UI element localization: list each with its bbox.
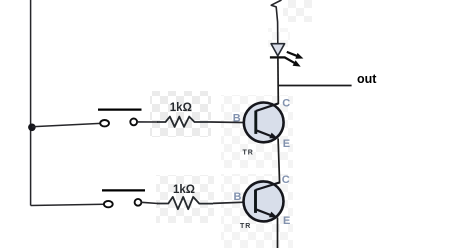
wire: LED cathode down to out node and TR1 collector xyxy=(277,58,279,105)
svg-text:C: C xyxy=(282,98,290,110)
wire: R1 to base of TR1 xyxy=(211,121,255,124)
wire: junction to switch S1 xyxy=(32,123,100,126)
svg-text:1kΩ: 1kΩ xyxy=(173,184,195,196)
checkerboard behind resistor R2 xyxy=(156,175,214,223)
designator TR2 xyxy=(240,223,251,230)
svg-text:E: E xyxy=(283,138,290,150)
checkerboard behind resistor R1 xyxy=(150,91,211,137)
switch S1 (pushbutton) xyxy=(98,110,142,127)
node label out xyxy=(357,72,377,86)
pin label B of TR1 xyxy=(233,113,241,125)
wire: S1 to R1 xyxy=(137,121,158,123)
svg-text:TR: TR xyxy=(240,223,251,230)
designator TR1 xyxy=(243,150,254,157)
junction node on rail xyxy=(28,124,36,132)
wire: TR1 emitter to TR2 collector xyxy=(278,138,280,183)
wire: out branch xyxy=(278,85,351,87)
svg-text:C: C xyxy=(282,174,290,186)
wire: left supply rail (vertical) xyxy=(30,0,32,206)
pin label E of TR1 xyxy=(283,138,290,150)
wire: S2 to R2 xyxy=(141,202,158,203)
transistor TR2 (NPN) xyxy=(244,181,284,221)
wire: TR2 emitter down to image edge xyxy=(277,218,279,248)
svg-text:out: out xyxy=(357,72,377,86)
pin label C of TR2 xyxy=(282,174,290,186)
checkerboard behind LED xyxy=(283,0,312,22)
svg-text:TR: TR xyxy=(243,150,254,157)
pin label C of TR1 xyxy=(282,98,290,110)
wire: bottom rail to switch S2 xyxy=(31,204,104,205)
transistor TR1 (NPN) xyxy=(244,103,284,143)
resistor R3 (top, partially cut) xyxy=(271,0,281,44)
svg-text:B: B xyxy=(234,191,242,203)
switch S2 (pushbutton) xyxy=(102,190,145,207)
pin label E of TR2 xyxy=(283,215,290,227)
checkerboard behind transistor TR1 xyxy=(221,95,293,168)
pin label B of TR2 xyxy=(234,191,242,203)
svg-text:E: E xyxy=(283,215,290,227)
resistor R2 1kOhm xyxy=(157,184,213,209)
wire: R2 to base of TR2 xyxy=(213,202,255,204)
svg-text:B: B xyxy=(233,113,241,125)
svg-text:1kΩ: 1kΩ xyxy=(170,102,192,114)
resistor R1 1kOhm xyxy=(157,102,211,127)
LED light arrows xyxy=(285,52,304,67)
LED D1 xyxy=(270,44,286,58)
checkerboard behind transistor TR2 xyxy=(221,174,293,248)
